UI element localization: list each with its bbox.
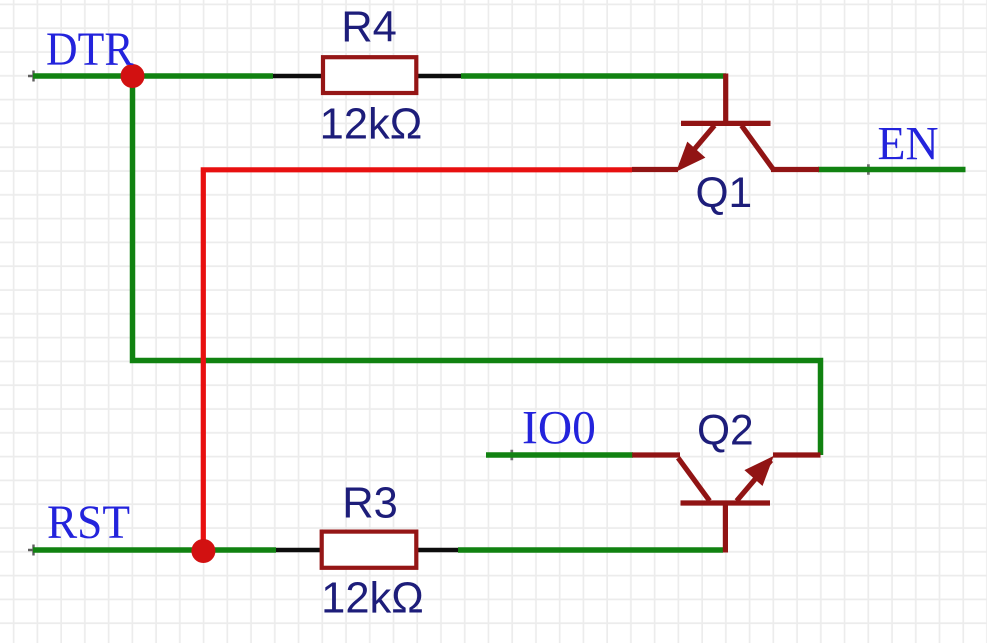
resistor R3 body	[322, 532, 417, 568]
Q2 emitter arrowhead	[745, 457, 773, 485]
wire: red net RST-to-Q1 horizontal	[203, 170, 632, 551]
svg-text:12kΩ: 12kΩ	[321, 575, 424, 623]
wire: IO0 green	[486, 452, 633, 458]
Q2 emitter wire	[773, 452, 821, 457]
pin lead: R4 right black	[417, 74, 461, 79]
pin lead: R4 left black	[273, 74, 322, 79]
Q2 collector wire	[632, 452, 680, 457]
transistor Q2	[632, 455, 820, 553]
Q2 emitter diagonal	[737, 460, 772, 501]
svg-text:RST: RST	[47, 497, 130, 549]
wire: EN green	[818, 167, 966, 173]
wire: RST left green	[33, 547, 276, 553]
svg-text:12kΩ: 12kΩ	[320, 100, 423, 148]
Q1 collector diagonal	[742, 126, 774, 170]
Q1 emitter arrowhead	[677, 143, 705, 171]
Q1 emitter diagonal	[681, 126, 715, 166]
pin lead: R3 right black	[417, 548, 458, 553]
svg-text:EN: EN	[878, 118, 939, 170]
Q1 emitter wire	[632, 167, 678, 172]
wire: RST right green (R3 to Q2 base)	[458, 547, 723, 553]
wire: DTR horizontal green	[33, 73, 273, 79]
Q2 collector diagonal	[678, 458, 710, 501]
svg-text:R4: R4	[341, 4, 397, 52]
wire: R4 to Q1 base green	[461, 73, 726, 79]
Q1 collector wire	[771, 167, 819, 172]
pin lead: R3 left black	[276, 548, 322, 553]
transistor Q1	[632, 74, 819, 170]
Q2 base bar	[681, 500, 771, 505]
pin-end cross EN	[863, 164, 873, 174]
junction dot at DTR	[121, 64, 145, 88]
Q1 base bar	[681, 121, 771, 126]
wire: DTR vertical + mid horizontal + down to Q2 emitter	[133, 76, 821, 455]
Q2 base lead	[723, 503, 728, 553]
svg-text:Q1: Q1	[696, 170, 753, 217]
pin-end cross RST	[28, 545, 39, 556]
svg-text:DTR: DTR	[46, 24, 134, 76]
resistor R4 body	[323, 57, 416, 93]
pin-end cross IO0	[507, 450, 517, 460]
svg-text:IO0: IO0	[522, 403, 596, 455]
svg-text:R3: R3	[342, 480, 398, 528]
junction dot at RST	[191, 539, 215, 563]
Q1 base lead	[723, 74, 728, 124]
svg-text:Q2: Q2	[697, 408, 754, 455]
pin-end cross DTR	[28, 71, 39, 82]
